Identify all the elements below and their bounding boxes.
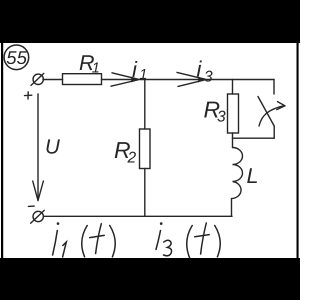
resistor R2	[140, 129, 151, 169]
wire R2 branch lower	[144, 169, 146, 217]
svg-text:1: 1	[139, 67, 147, 83]
voltage arrow U	[33, 94, 44, 201]
switch SW blade	[258, 97, 274, 127]
wire top-left (terminal to R1)	[43, 79, 63, 81]
svg-text:2: 2	[127, 150, 137, 167]
label i3(t) bottom	[156, 222, 220, 257]
current arrow i1	[111, 73, 139, 86]
switch actuation arrow	[259, 102, 285, 126]
svg-text:1: 1	[92, 60, 100, 76]
wire bottom connector of R3/switch loop	[233, 137, 275, 139]
wire switch branch upper	[273, 80, 275, 95]
label -	[28, 205, 34, 207]
label i1(t) bottom	[53, 222, 116, 257]
wire switch branch lower	[273, 126, 275, 138]
wire R3 branch upper	[232, 80, 234, 95]
label R2	[114, 137, 137, 167]
resistor R3	[228, 94, 239, 133]
wire bottom (terminal to inductor)	[44, 215, 233, 217]
current arrow i3	[177, 72, 206, 86]
svg-text:L: L	[247, 164, 259, 188]
label R1	[79, 51, 100, 77]
label R3	[204, 97, 227, 126]
svg-text:3: 3	[204, 69, 213, 86]
svg-text:U: U	[45, 136, 60, 159]
svg-text:55: 55	[6, 47, 27, 68]
wire top (R1 to right corner)	[102, 79, 275, 81]
terminal top-left	[31, 73, 44, 85]
label i1	[132, 57, 147, 83]
svg-text:i: i	[132, 57, 138, 82]
problem number badge 55	[4, 45, 29, 70]
terminal bottom-left	[31, 210, 45, 223]
wire R2 branch upper	[144, 80, 146, 130]
resistor R1	[63, 74, 102, 85]
label +	[25, 92, 32, 99]
label i3	[197, 57, 214, 86]
svg-text:3: 3	[217, 109, 226, 126]
inductor L	[232, 138, 243, 216]
wire R3 bottom stub	[232, 133, 234, 138]
